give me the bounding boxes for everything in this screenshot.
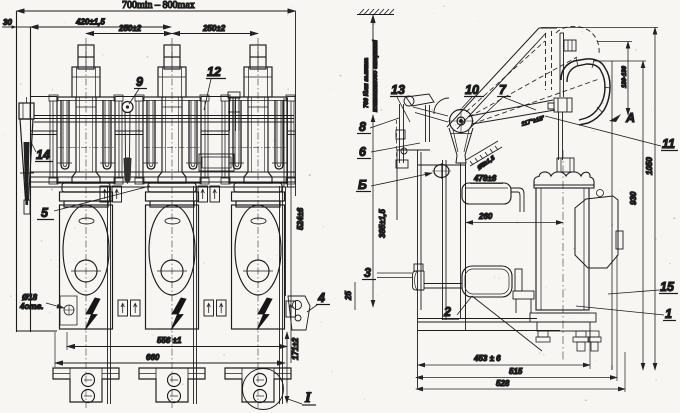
roller item 3 [413, 264, 463, 290]
svg-text:556 ±1: 556 ±1 [157, 336, 182, 345]
callout B [356, 173, 432, 192]
svg-text:250±2: 250±2 [202, 24, 226, 33]
dim 250 a [86, 33, 172, 35]
contact rod [559, 33, 561, 97]
frame verticals [16, 11, 18, 332]
label 4 [307, 291, 330, 312]
svg-text:30: 30 [3, 18, 12, 27]
item 12 clamp [228, 92, 240, 131]
ceiling hatch [357, 9, 394, 15]
hole label F18 [46, 296, 77, 325]
blade item 14 [19, 103, 34, 119]
frame verticals right view [397, 150, 466, 388]
item 9 rod [122, 102, 133, 113]
pivot housing arc [434, 98, 449, 114]
dim 660 [55, 362, 285, 364]
nameplate [199, 154, 234, 171]
dim 260 [466, 222, 563, 224]
bolts bottom [536, 331, 601, 351]
contact holder [548, 98, 572, 160]
svg-text:6: 6 [359, 145, 367, 159]
callout 13 [390, 83, 410, 122]
svg-text:660: 660 [146, 353, 160, 362]
callout 7 [470, 83, 536, 128]
svg-text:524±6: 524±6 [296, 207, 305, 230]
svg-text:15: 15 [660, 280, 675, 294]
callout 3 [362, 266, 412, 280]
callout 1 [576, 306, 676, 321]
svg-text:11: 11 [662, 137, 675, 151]
svg-text:420±1,5: 420±1,5 [75, 18, 105, 27]
svg-text:Ø18: Ø18 [22, 293, 38, 302]
svg-text:4отв.: 4отв. [19, 302, 44, 311]
detail circle I [243, 369, 284, 410]
svg-text:1050: 1050 [645, 157, 654, 175]
hook arm closed [561, 59, 610, 125]
svg-text:13: 13 [391, 83, 405, 97]
column cap [534, 172, 594, 188]
svg-text:7: 7 [499, 83, 507, 97]
triangle arm silhouette [447, 28, 539, 127]
svg-text:5: 5 [41, 206, 49, 220]
lower cylinder [462, 266, 512, 297]
dim 700 rod removal [372, 15, 374, 112]
frame bottom corner [17, 330, 58, 332]
column top fitting [557, 158, 574, 172]
column base [530, 313, 596, 331]
strut diagonal [472, 296, 542, 351]
svg-text:478±6: 478±6 [473, 174, 497, 183]
dim 478 [470, 183, 503, 185]
upper cylinder [462, 183, 511, 204]
item 4 bracket [288, 296, 310, 330]
svg-text:2: 2 [443, 305, 451, 319]
ellipse hole B [434, 165, 449, 178]
svg-text:515: 515 [509, 367, 523, 376]
pole 1 [49, 38, 123, 408]
right dims [541, 28, 658, 371]
dashed travel lines [466, 41, 545, 112]
dim 385 [372, 115, 374, 307]
arc chute box 15 [575, 196, 618, 268]
base lines [418, 319, 560, 331]
svg-text:I: I [304, 390, 312, 406]
callout 8 [357, 118, 399, 134]
label 14 [30, 140, 53, 162]
svg-text:171±2: 171±2 [291, 337, 300, 360]
callout 10 [462, 83, 484, 108]
dim 25 [354, 282, 356, 310]
svg-text:14: 14 [36, 148, 50, 162]
svg-text:260: 260 [478, 212, 493, 221]
dim 420 [31, 26, 172, 28]
svg-text:контактного стержня!: контактного стержня! [373, 40, 379, 112]
mid frame band [31, 172, 295, 187]
link rod pivot to holder [470, 100, 553, 116]
svg-text:385±1,5: 385±1,5 [378, 209, 387, 238]
bracket 13/8 [396, 94, 434, 168]
svg-text:700min – 800max: 700min – 800max [122, 0, 195, 11]
funnel [449, 128, 473, 163]
pivot [450, 110, 473, 133]
dim 556 [67, 346, 287, 348]
svg-text:25: 25 [344, 291, 353, 301]
callout 11 [545, 116, 678, 151]
bottom dims right view [418, 364, 590, 366]
label A arrow [609, 114, 621, 122]
label 5 [37, 186, 150, 220]
svg-text:528: 528 [496, 379, 510, 388]
callout 2 [442, 296, 472, 319]
column body [536, 188, 589, 310]
hatched band [466, 141, 502, 166]
svg-text:9: 9 [136, 75, 143, 89]
svg-text:453 ± 6: 453 ± 6 [473, 354, 501, 363]
svg-text:930: 930 [629, 191, 638, 205]
svg-text:3: 3 [364, 266, 371, 280]
svg-text:700 !для вынима: 700 !для вынима [364, 57, 370, 108]
svg-text:180-190: 180-190 [622, 65, 628, 88]
svg-text:4: 4 [317, 291, 325, 305]
svg-text:250±2: 250±2 [118, 24, 142, 33]
svg-text:Б: Б [358, 178, 367, 192]
pole 3 [221, 38, 295, 408]
svg-text:1: 1 [665, 307, 672, 321]
label 12 [204, 65, 226, 110]
dim 250 b [172, 33, 258, 35]
label 9 [129, 75, 147, 104]
callout 6 [357, 143, 420, 159]
dim 171 vertical [286, 332, 288, 403]
pole 2 [135, 38, 209, 408]
callout 15 [608, 280, 678, 294]
svg-text:8: 8 [359, 120, 366, 134]
dim 524 vertical [290, 115, 292, 363]
gap blocks [100, 186, 110, 202]
dim 30 [2, 26, 17, 28]
busbar lines [30, 97, 295, 135]
svg-text:12: 12 [207, 65, 221, 79]
svg-text:А: А [625, 111, 635, 125]
dim 700min-800max [17, 10, 296, 12]
